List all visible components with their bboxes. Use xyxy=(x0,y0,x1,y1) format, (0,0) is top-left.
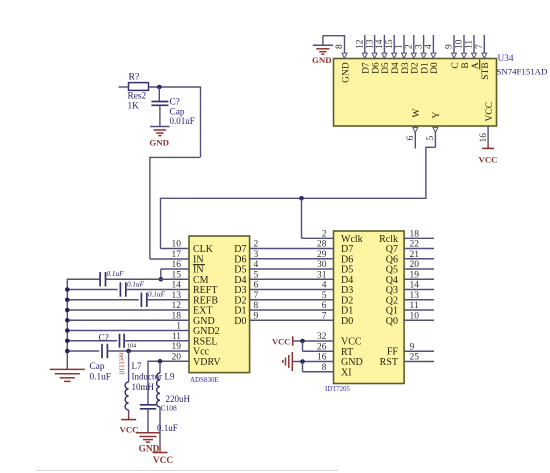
svg-text:10: 10 xyxy=(455,39,465,49)
rotated ground at IDT7205 xyxy=(291,352,293,371)
svg-text:16: 16 xyxy=(479,133,489,143)
faint bottom border line xyxy=(36,470,338,472)
U34 pin 10 arrow xyxy=(462,53,467,58)
U34 pin 15 (D4) stub xyxy=(393,35,395,59)
GND2 wire xyxy=(67,330,189,332)
junction IN2/CM xyxy=(159,277,164,282)
U34 pin 11 arrow xyxy=(472,53,477,58)
svg-text:10mH: 10mH xyxy=(132,382,155,392)
U34 pin 7 arrow xyxy=(482,53,487,58)
RSEL wire bus to cap xyxy=(67,340,117,342)
svg-text:8: 8 xyxy=(335,44,345,49)
wire VDRV junction down to L9 xyxy=(159,361,161,373)
svg-text:Y: Y xyxy=(432,112,442,119)
ground under C? xyxy=(150,126,170,128)
svg-text:7: 7 xyxy=(322,311,327,321)
svg-text:31: 31 xyxy=(317,270,327,280)
wire junction down to RT pin 26 xyxy=(302,341,304,351)
svg-text:VCC: VCC xyxy=(119,425,138,435)
svg-text:4: 4 xyxy=(322,281,327,291)
svg-text:D5: D5 xyxy=(381,62,391,74)
wire input to R? xyxy=(119,86,129,88)
wire R? to node A xyxy=(149,86,201,88)
svg-text:VCC: VCC xyxy=(485,102,495,122)
U34 pin 6 (W) stub xyxy=(414,126,416,149)
junction VDRV / L9 branch xyxy=(158,359,163,364)
IN2 wire stub joining CM net xyxy=(161,268,189,270)
svg-text:L7: L7 xyxy=(132,361,142,371)
svg-text:C: C xyxy=(451,62,461,68)
U34 pin 2 (D2) stub xyxy=(413,35,415,59)
node B junction on CLK net xyxy=(299,196,304,201)
svg-text:L9: L9 xyxy=(165,372,175,382)
svg-text:GND: GND xyxy=(139,445,160,455)
wire C108 to ground xyxy=(147,409,149,433)
capacitor 0.1uF on REFT net xyxy=(119,282,121,296)
svg-text:D4: D4 xyxy=(391,62,401,74)
ground at bus bottom xyxy=(50,368,85,370)
CM net wire to bus xyxy=(67,278,100,280)
svg-text:5: 5 xyxy=(322,291,327,301)
svg-text:1K: 1K xyxy=(128,102,140,112)
junction VCC/RT xyxy=(300,339,305,344)
resistor R? xyxy=(129,83,149,91)
svg-text:17: 17 xyxy=(172,250,182,260)
U34 pin 12 arrow xyxy=(362,53,367,58)
svg-text:D2: D2 xyxy=(411,62,421,74)
Vcc wire bus to cap C? xyxy=(67,350,99,352)
wire Vcc junction down to L7 xyxy=(128,351,130,382)
capacitor C108 0.1uF xyxy=(140,404,156,406)
svg-text:D1: D1 xyxy=(420,62,430,74)
junction GND/XI xyxy=(300,359,305,364)
svg-text:RST: RST xyxy=(380,357,398,368)
svg-text:Cap: Cap xyxy=(90,362,105,372)
U34 pin 8 (GND) stub xyxy=(344,35,346,59)
U34 pin 12 (D7) stub xyxy=(364,35,366,59)
svg-text:D3: D3 xyxy=(401,62,411,74)
ground at U34 pin 8 xyxy=(313,44,333,46)
U34 pin 9 arrow xyxy=(452,53,457,58)
VDRV wire xyxy=(148,360,189,362)
wire L9 to VCC bottom xyxy=(159,407,161,446)
svg-text:0.01uF: 0.01uF xyxy=(170,116,195,126)
ground bus vertical xyxy=(66,279,68,370)
svg-text:W: W xyxy=(412,109,422,118)
svg-text:14: 14 xyxy=(375,39,385,49)
svg-text:5: 5 xyxy=(426,136,436,141)
svg-text:1: 1 xyxy=(395,44,405,49)
VCC power symbol at U34 pin 16 xyxy=(482,147,494,149)
svg-text:0.1uF: 0.1uF xyxy=(107,270,125,278)
svg-text:0.1uF: 0.1uF xyxy=(90,373,111,383)
U34 pin 2 arrow xyxy=(411,53,416,58)
svg-text:D0: D0 xyxy=(430,62,440,74)
U34 pin 11 (A) stub xyxy=(473,35,475,59)
GND wire xyxy=(67,319,189,321)
wire node A down-left to IN pin xyxy=(200,86,202,157)
RSEL wire cap to pin xyxy=(124,340,189,342)
svg-text:STB: STB xyxy=(481,62,491,79)
wire node B down to Wclk pin xyxy=(301,198,303,238)
inductor L9 220uH xyxy=(157,373,160,407)
U34 pin 3 (D1) stub xyxy=(423,35,425,59)
long wire CLK net xyxy=(161,197,426,199)
inductor L7 10mH xyxy=(125,382,129,410)
U34 pin 15 arrow xyxy=(392,53,397,58)
svg-text:11: 11 xyxy=(465,40,475,49)
capacitor C? 0.01uF xyxy=(151,101,168,103)
svg-text:Q0: Q0 xyxy=(386,316,398,327)
U34 pin 6 arrow xyxy=(413,127,418,132)
svg-text:104: 104 xyxy=(127,343,136,350)
wire VDRV corner down to C108 xyxy=(147,361,149,405)
U34 pin 1 (D3) stub xyxy=(403,35,405,59)
U34 pin 4 (D0) stub xyxy=(432,35,434,59)
U34 pin 4 arrow xyxy=(431,53,436,58)
svg-text:2: 2 xyxy=(322,229,327,239)
svg-text:7: 7 xyxy=(475,44,485,49)
svg-text:VCC: VCC xyxy=(153,456,173,466)
REFT wire cap to pin xyxy=(126,289,189,291)
EXT wire xyxy=(67,309,189,311)
svg-text:6: 6 xyxy=(322,301,327,311)
VCC power symbol under L7 xyxy=(121,419,136,421)
junction Vcc net / L7 branch xyxy=(126,349,131,354)
wire ground to pin 16 xyxy=(292,361,333,363)
FIFO IC IDT7205 body xyxy=(334,231,405,384)
CM net wire right of cap xyxy=(106,278,189,280)
svg-text:Res2: Res2 xyxy=(128,92,147,102)
U34 pin 14 arrow xyxy=(382,53,387,58)
REFB wire cap to pin xyxy=(147,299,189,301)
capacitor 104 on RSEL net xyxy=(119,334,121,348)
svg-text:VDRV: VDRV xyxy=(193,357,221,368)
svg-text:9: 9 xyxy=(445,44,455,49)
U34 pin 8 arrow xyxy=(342,53,347,58)
svg-text:15: 15 xyxy=(385,39,395,49)
wire junction down to XI pin 8 xyxy=(302,362,304,372)
U34 pin 1 arrow xyxy=(402,53,407,58)
VCC power symbol at IDT7205 xyxy=(292,336,294,346)
U34 pin 13 arrow xyxy=(372,53,377,58)
svg-text:GND: GND xyxy=(312,55,332,65)
svg-text:10: 10 xyxy=(172,240,182,250)
U34 pin 3 arrow xyxy=(421,53,426,58)
svg-text:net1110: net1110 xyxy=(118,353,126,376)
wire CLK net up to Y pin of U34 xyxy=(425,147,427,199)
wire node A down to capacitor C? xyxy=(158,87,160,102)
U34 pin 10 (B) stub xyxy=(463,35,465,59)
svg-text:C?: C? xyxy=(99,334,109,344)
svg-text:220uH: 220uH xyxy=(166,394,191,404)
svg-text:D6: D6 xyxy=(371,62,381,74)
svg-text:13: 13 xyxy=(365,39,375,49)
U34 pin 9 (C) stub xyxy=(453,35,455,59)
svg-text:GND: GND xyxy=(149,138,169,148)
svg-text:D0: D0 xyxy=(234,316,246,327)
svg-text:12: 12 xyxy=(356,39,366,49)
REFB wire bus to cap xyxy=(67,299,138,301)
svg-text:2: 2 xyxy=(405,44,415,49)
node A junction xyxy=(157,85,162,90)
svg-text:VCC: VCC xyxy=(478,155,497,165)
op IC U34 SN74F151AD body xyxy=(334,59,497,127)
svg-text:30: 30 xyxy=(317,260,327,270)
ground under C108 xyxy=(136,432,160,434)
svg-text:C108: C108 xyxy=(161,404,178,413)
svg-text:B: B xyxy=(461,62,471,68)
svg-text:U34: U34 xyxy=(498,54,514,64)
wire L7 to VCC xyxy=(128,410,130,414)
capacitor 0.1uF on CM net xyxy=(99,272,101,286)
capacitor C? 0.1uF on Vcc net xyxy=(101,344,103,358)
svg-text:C?: C? xyxy=(170,98,180,108)
U34 pin 7 (STB) stub xyxy=(483,35,485,59)
U34 pin 5 arrow xyxy=(433,127,438,132)
svg-text:SN74F151AD: SN74F151AD xyxy=(497,67,548,77)
svg-text:ADS830E: ADS830E xyxy=(190,376,219,384)
svg-text:0.1uF: 0.1uF xyxy=(148,291,166,299)
svg-text:D7: D7 xyxy=(362,62,372,74)
Vcc wire cap to pin xyxy=(107,350,189,352)
svg-text:3: 3 xyxy=(414,44,424,49)
VCC power symbol under L9 xyxy=(153,452,168,454)
U34 pin 14 (D5) stub xyxy=(383,35,385,59)
svg-text:VCC: VCC xyxy=(272,336,290,346)
ADC IC ADS830E body xyxy=(189,236,250,373)
REFT wire bus to cap xyxy=(67,289,117,291)
svg-text:6: 6 xyxy=(406,136,416,141)
svg-text:R?: R? xyxy=(129,72,140,83)
svg-text:XI: XI xyxy=(341,367,352,378)
capacitor 0.1uF on REFB net xyxy=(140,293,142,307)
wire down to CLK pin xyxy=(160,198,162,249)
svg-text:29: 29 xyxy=(317,250,327,260)
svg-text:28: 28 xyxy=(317,240,327,250)
svg-text:IDT7205: IDT7205 xyxy=(325,386,351,393)
U34 pin 13 (D6) stub xyxy=(374,35,376,59)
svg-text:D0: D0 xyxy=(341,316,353,327)
svg-text:0.1uF: 0.1uF xyxy=(127,280,145,288)
U34 GND pin wire to ground xyxy=(323,35,345,37)
U34 pin 16 (VCC) stub xyxy=(487,126,489,141)
svg-text:4: 4 xyxy=(424,44,434,49)
wire C? to ground xyxy=(159,105,161,126)
svg-text:GND: GND xyxy=(341,62,351,83)
wire VCC to pin 32 xyxy=(293,340,334,342)
